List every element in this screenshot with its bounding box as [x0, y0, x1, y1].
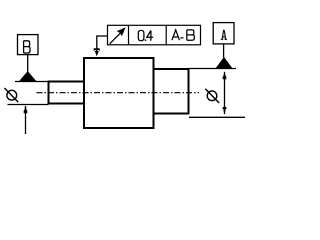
feature control frame divider 2: [165, 25, 167, 45]
feature control frame outer box: [108, 25, 201, 45]
decimal point of 0.4: [145, 39, 147, 41]
centerline (dash-dot axis): [37, 92, 200, 94]
extension line right bottom: [189, 116, 245, 118]
datum B leader: [27, 55, 29, 72]
dimension line right (vertical): [224, 72, 226, 114]
datum A frame: [213, 23, 234, 44]
datum B letter: [24, 41, 30, 53]
diameter symbol left: [4, 88, 18, 102]
extension line left top: [15, 81, 49, 83]
part body: large middle cylinder: [84, 58, 154, 128]
tolerance value 0.4: [138, 30, 153, 40]
datum A letter: [221, 30, 227, 39]
datum A leader: [223, 44, 225, 58]
dimension line left (vertical, below part): [25, 106, 27, 134]
FCF leader arrow (down, on cylinder top): [94, 48, 100, 56]
part body: left shaft section: [49, 82, 85, 104]
part body: right shaft section: [154, 69, 189, 114]
FCF leader horizontal: [97, 35, 107, 37]
datum B triangle (filled, base on surface): [19, 71, 37, 82]
FCF leader vertical: [96, 35, 98, 51]
dimension arrow right bottom (down): [223, 107, 227, 115]
datum A triangle (filled, base on extension line): [215, 57, 233, 69]
feature control frame divider 1: [128, 25, 130, 45]
extension line left bottom: [8, 104, 49, 106]
datum reference A-B: [172, 30, 194, 40]
dimension arrow left (up): [24, 105, 28, 113]
dimension arrow right top (up): [223, 71, 227, 79]
circular runout symbol (45° arrow): [110, 27, 126, 43]
extension line right top: [189, 68, 236, 70]
datum B frame: [18, 35, 39, 55]
diameter symbol right: [205, 89, 219, 103]
